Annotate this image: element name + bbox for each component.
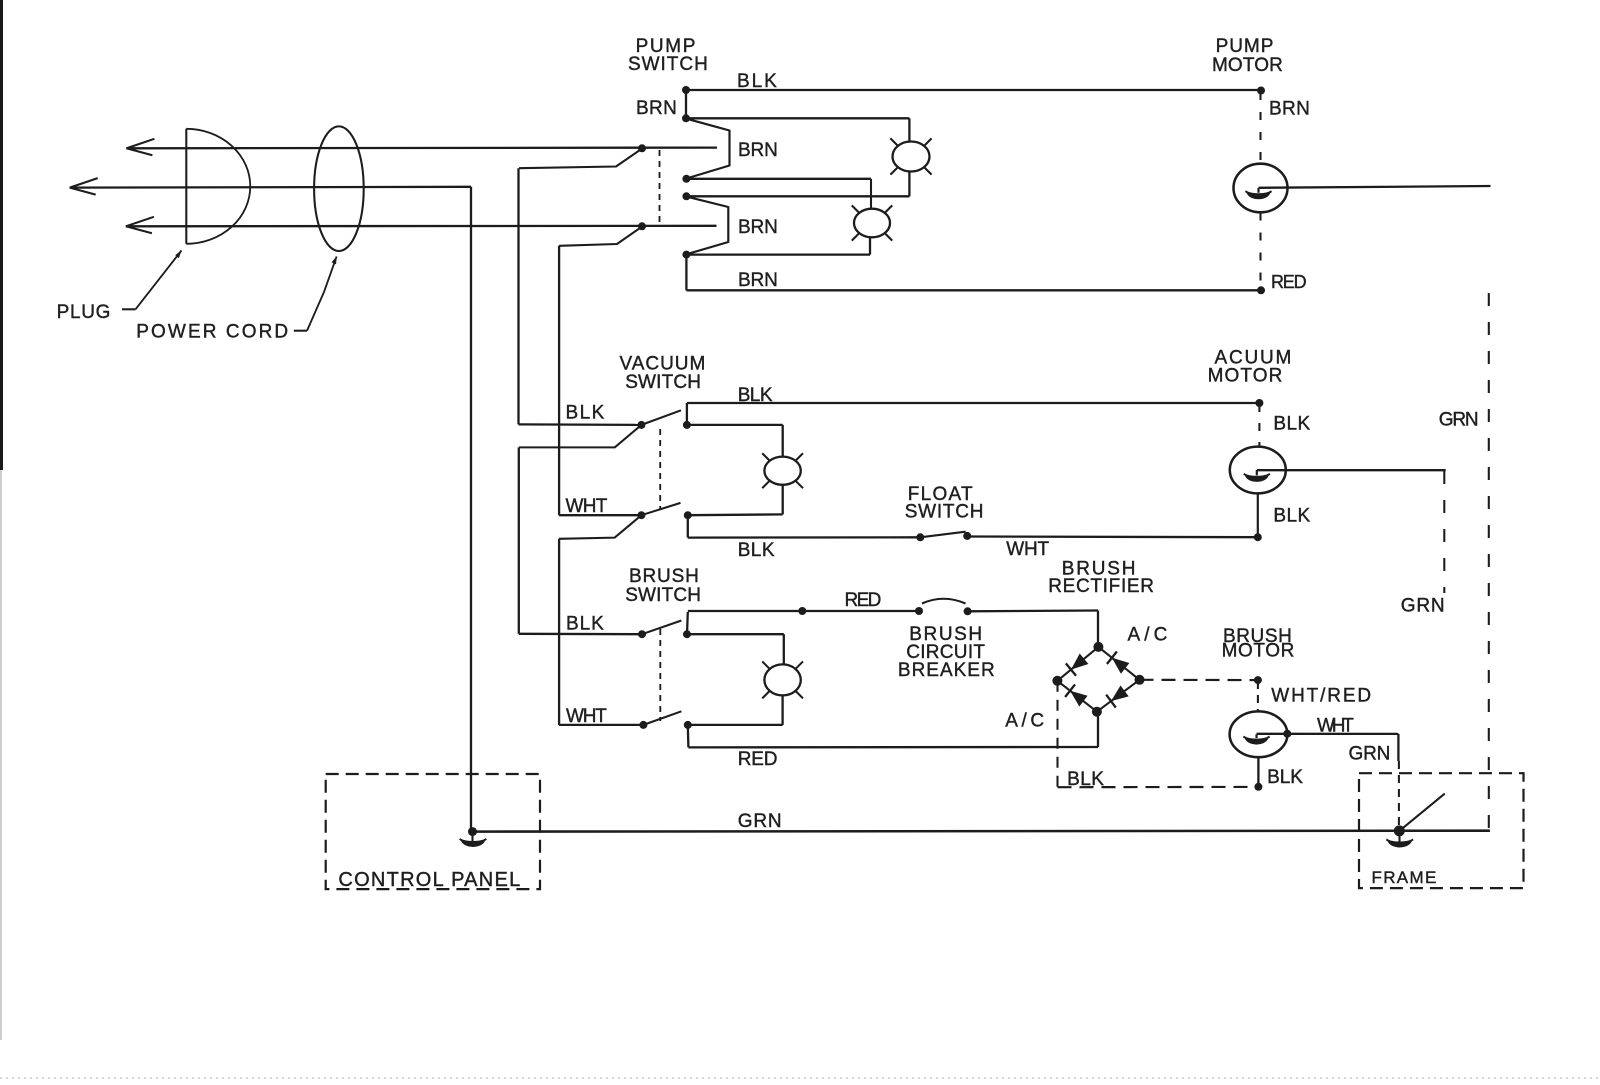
svg-text:BLK: BLK bbox=[1067, 769, 1105, 790]
svg-text:BLK: BLK bbox=[566, 403, 606, 424]
svg-text:WHT: WHT bbox=[1006, 539, 1050, 560]
svg-text:BRN: BRN bbox=[1269, 99, 1311, 120]
svg-text:BRUSH: BRUSH bbox=[629, 566, 700, 587]
svg-text:RED: RED bbox=[738, 749, 779, 770]
svg-text:BLK: BLK bbox=[738, 540, 776, 561]
svg-text:FRAME: FRAME bbox=[1372, 868, 1438, 887]
svg-text:PLUG: PLUG bbox=[57, 302, 112, 323]
svg-text:BRN: BRN bbox=[738, 270, 779, 291]
svg-text:GRN: GRN bbox=[738, 811, 783, 832]
svg-text:BRN: BRN bbox=[636, 98, 678, 119]
svg-text:MOTOR: MOTOR bbox=[1208, 366, 1284, 387]
svg-text:SWITCH: SWITCH bbox=[625, 372, 702, 393]
svg-text:BRN: BRN bbox=[738, 217, 779, 238]
svg-text:BLK: BLK bbox=[738, 385, 774, 406]
svg-text:BRN: BRN bbox=[738, 140, 779, 161]
svg-text:MOTOR: MOTOR bbox=[1222, 641, 1296, 662]
svg-text:MOTOR: MOTOR bbox=[1212, 55, 1284, 76]
svg-text:RED: RED bbox=[845, 590, 883, 611]
svg-text:BLK: BLK bbox=[1273, 414, 1311, 435]
svg-text:WHT/RED: WHT/RED bbox=[1271, 686, 1372, 707]
svg-text:SWITCH: SWITCH bbox=[628, 54, 709, 75]
svg-text:SWITCH: SWITCH bbox=[905, 502, 985, 523]
svg-text:RECTIFIER: RECTIFIER bbox=[1048, 576, 1155, 597]
svg-text:WHT: WHT bbox=[566, 496, 609, 517]
svg-text:A/C: A/C bbox=[1005, 711, 1045, 732]
svg-text:POWER CORD: POWER CORD bbox=[136, 322, 289, 343]
svg-text:GRN: GRN bbox=[1349, 744, 1392, 765]
svg-text:GRN: GRN bbox=[1401, 596, 1446, 617]
svg-text:WHT: WHT bbox=[1317, 716, 1355, 737]
svg-text:BLK: BLK bbox=[1267, 767, 1304, 788]
svg-text:BREAKER: BREAKER bbox=[898, 660, 996, 681]
svg-text:CONTROL PANEL: CONTROL PANEL bbox=[338, 869, 521, 891]
svg-text:PUMP: PUMP bbox=[1216, 36, 1275, 57]
svg-text:RED: RED bbox=[1271, 272, 1307, 292]
svg-text:BLK: BLK bbox=[1273, 506, 1311, 527]
svg-text:A/C: A/C bbox=[1128, 625, 1169, 646]
svg-text:SWITCH: SWITCH bbox=[625, 585, 702, 606]
svg-text:GRN: GRN bbox=[1439, 410, 1480, 431]
svg-text:BLK: BLK bbox=[566, 614, 605, 635]
